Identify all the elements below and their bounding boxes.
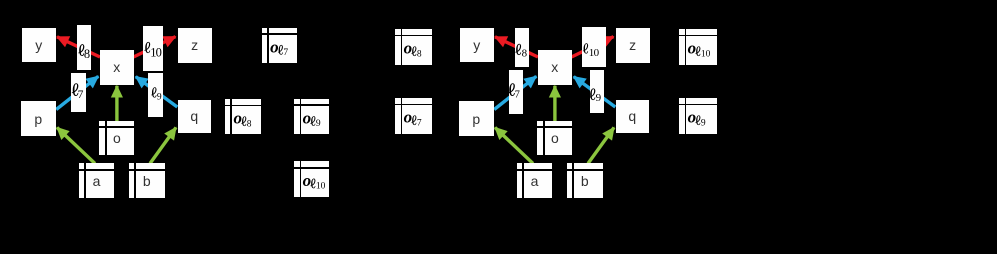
svg-text:9: 9 — [701, 118, 706, 128]
svg-text:10: 10 — [701, 49, 711, 59]
svg-text:7: 7 — [283, 48, 288, 58]
svg-text:o: o — [688, 108, 697, 127]
svg-text:o: o — [404, 39, 413, 58]
svg-text:o: o — [688, 39, 697, 58]
svg-text:7: 7 — [78, 89, 84, 101]
svg-text:8: 8 — [247, 119, 252, 129]
svg-text:o: o — [303, 109, 312, 128]
svg-text:o: o — [404, 108, 413, 127]
svg-text:9: 9 — [316, 119, 321, 129]
svg-text:o: o — [270, 37, 279, 56]
svg-text:10: 10 — [150, 46, 161, 60]
svg-text:10: 10 — [589, 47, 600, 59]
svg-text:9: 9 — [157, 92, 162, 102]
svg-text:9: 9 — [596, 92, 602, 104]
svg-text:7: 7 — [515, 90, 520, 101]
svg-text:8: 8 — [84, 47, 90, 61]
svg-text:10: 10 — [316, 182, 326, 192]
svg-text:8: 8 — [522, 47, 528, 59]
svg-text:o: o — [234, 109, 243, 128]
svg-text:7: 7 — [417, 118, 422, 128]
svg-text:o: o — [303, 171, 312, 190]
svg-text:8: 8 — [417, 49, 422, 59]
